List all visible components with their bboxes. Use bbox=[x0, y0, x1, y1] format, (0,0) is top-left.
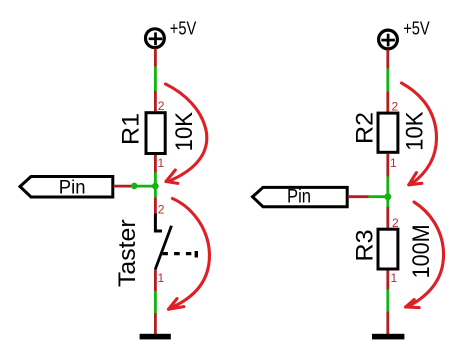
svg-text:Taster: Taster bbox=[114, 219, 141, 287]
wire R1 to node (left) bbox=[154, 155, 157, 186]
annotation arrow 4 (from right node to ground) bbox=[406, 202, 444, 308]
svg-text:Pin: Pin bbox=[287, 187, 311, 208]
wire node to switch (left) bbox=[154, 186, 157, 214]
svg-text:100M: 100M bbox=[408, 224, 435, 278]
wire R3 to ground (right rail lower) bbox=[386, 271, 389, 335]
connector flag Pin (left) bbox=[20, 177, 113, 198]
junction dot (left, wire joint) bbox=[131, 183, 138, 190]
node junction dot (right main node) bbox=[384, 193, 391, 200]
power supply +5V symbol (right) bbox=[379, 30, 398, 49]
svg-text:2: 2 bbox=[158, 99, 165, 113]
svg-text:Pin: Pin bbox=[59, 177, 86, 198]
resistor R1 bbox=[146, 113, 165, 154]
ground symbol (right) bbox=[372, 334, 404, 340]
wire Pin flag to node (left horizontal) bbox=[114, 185, 156, 188]
svg-text:1: 1 bbox=[391, 271, 398, 285]
svg-text:R3: R3 bbox=[351, 230, 378, 262]
pushbutton switch (Taster) bbox=[155, 214, 196, 270]
svg-text:10K: 10K bbox=[171, 112, 198, 151]
resistor R2 bbox=[378, 113, 398, 152]
svg-text:1: 1 bbox=[158, 271, 165, 285]
svg-text:10K: 10K bbox=[402, 112, 429, 151]
ground symbol (left) bbox=[140, 334, 171, 340]
svg-text:+5V: +5V bbox=[403, 18, 430, 38]
wire node to R3 (right) bbox=[386, 197, 389, 228]
svg-text:R2: R2 bbox=[351, 112, 378, 144]
wire R2 to node (right) bbox=[386, 154, 389, 197]
wire Pin flag to node (right horizontal) bbox=[348, 195, 388, 198]
power supply +5V symbol (left) bbox=[146, 29, 165, 48]
wire +5V to R1 (left rail upper) bbox=[154, 49, 157, 112]
svg-text:2: 2 bbox=[392, 100, 399, 114]
connector flag Pin (right) bbox=[253, 187, 348, 206]
annotation arrow 3 (from +5V side to right node) bbox=[402, 83, 437, 185]
svg-text:1: 1 bbox=[390, 156, 397, 170]
svg-text:2: 2 bbox=[158, 203, 165, 217]
wire +5V to R2 (right rail upper) bbox=[386, 50, 389, 112]
svg-text:R1: R1 bbox=[118, 113, 145, 145]
annotation arrow 2 (from left node to ground) bbox=[169, 199, 210, 310]
svg-text:1: 1 bbox=[158, 156, 165, 170]
annotation arrow 1 (from +5V side to left node) bbox=[166, 84, 207, 183]
resistor R3 bbox=[378, 229, 398, 269]
svg-text:+5V: +5V bbox=[170, 18, 197, 38]
node junction dot (left main node) bbox=[152, 183, 159, 190]
wire switch to ground (left rail lower) bbox=[154, 270, 157, 335]
